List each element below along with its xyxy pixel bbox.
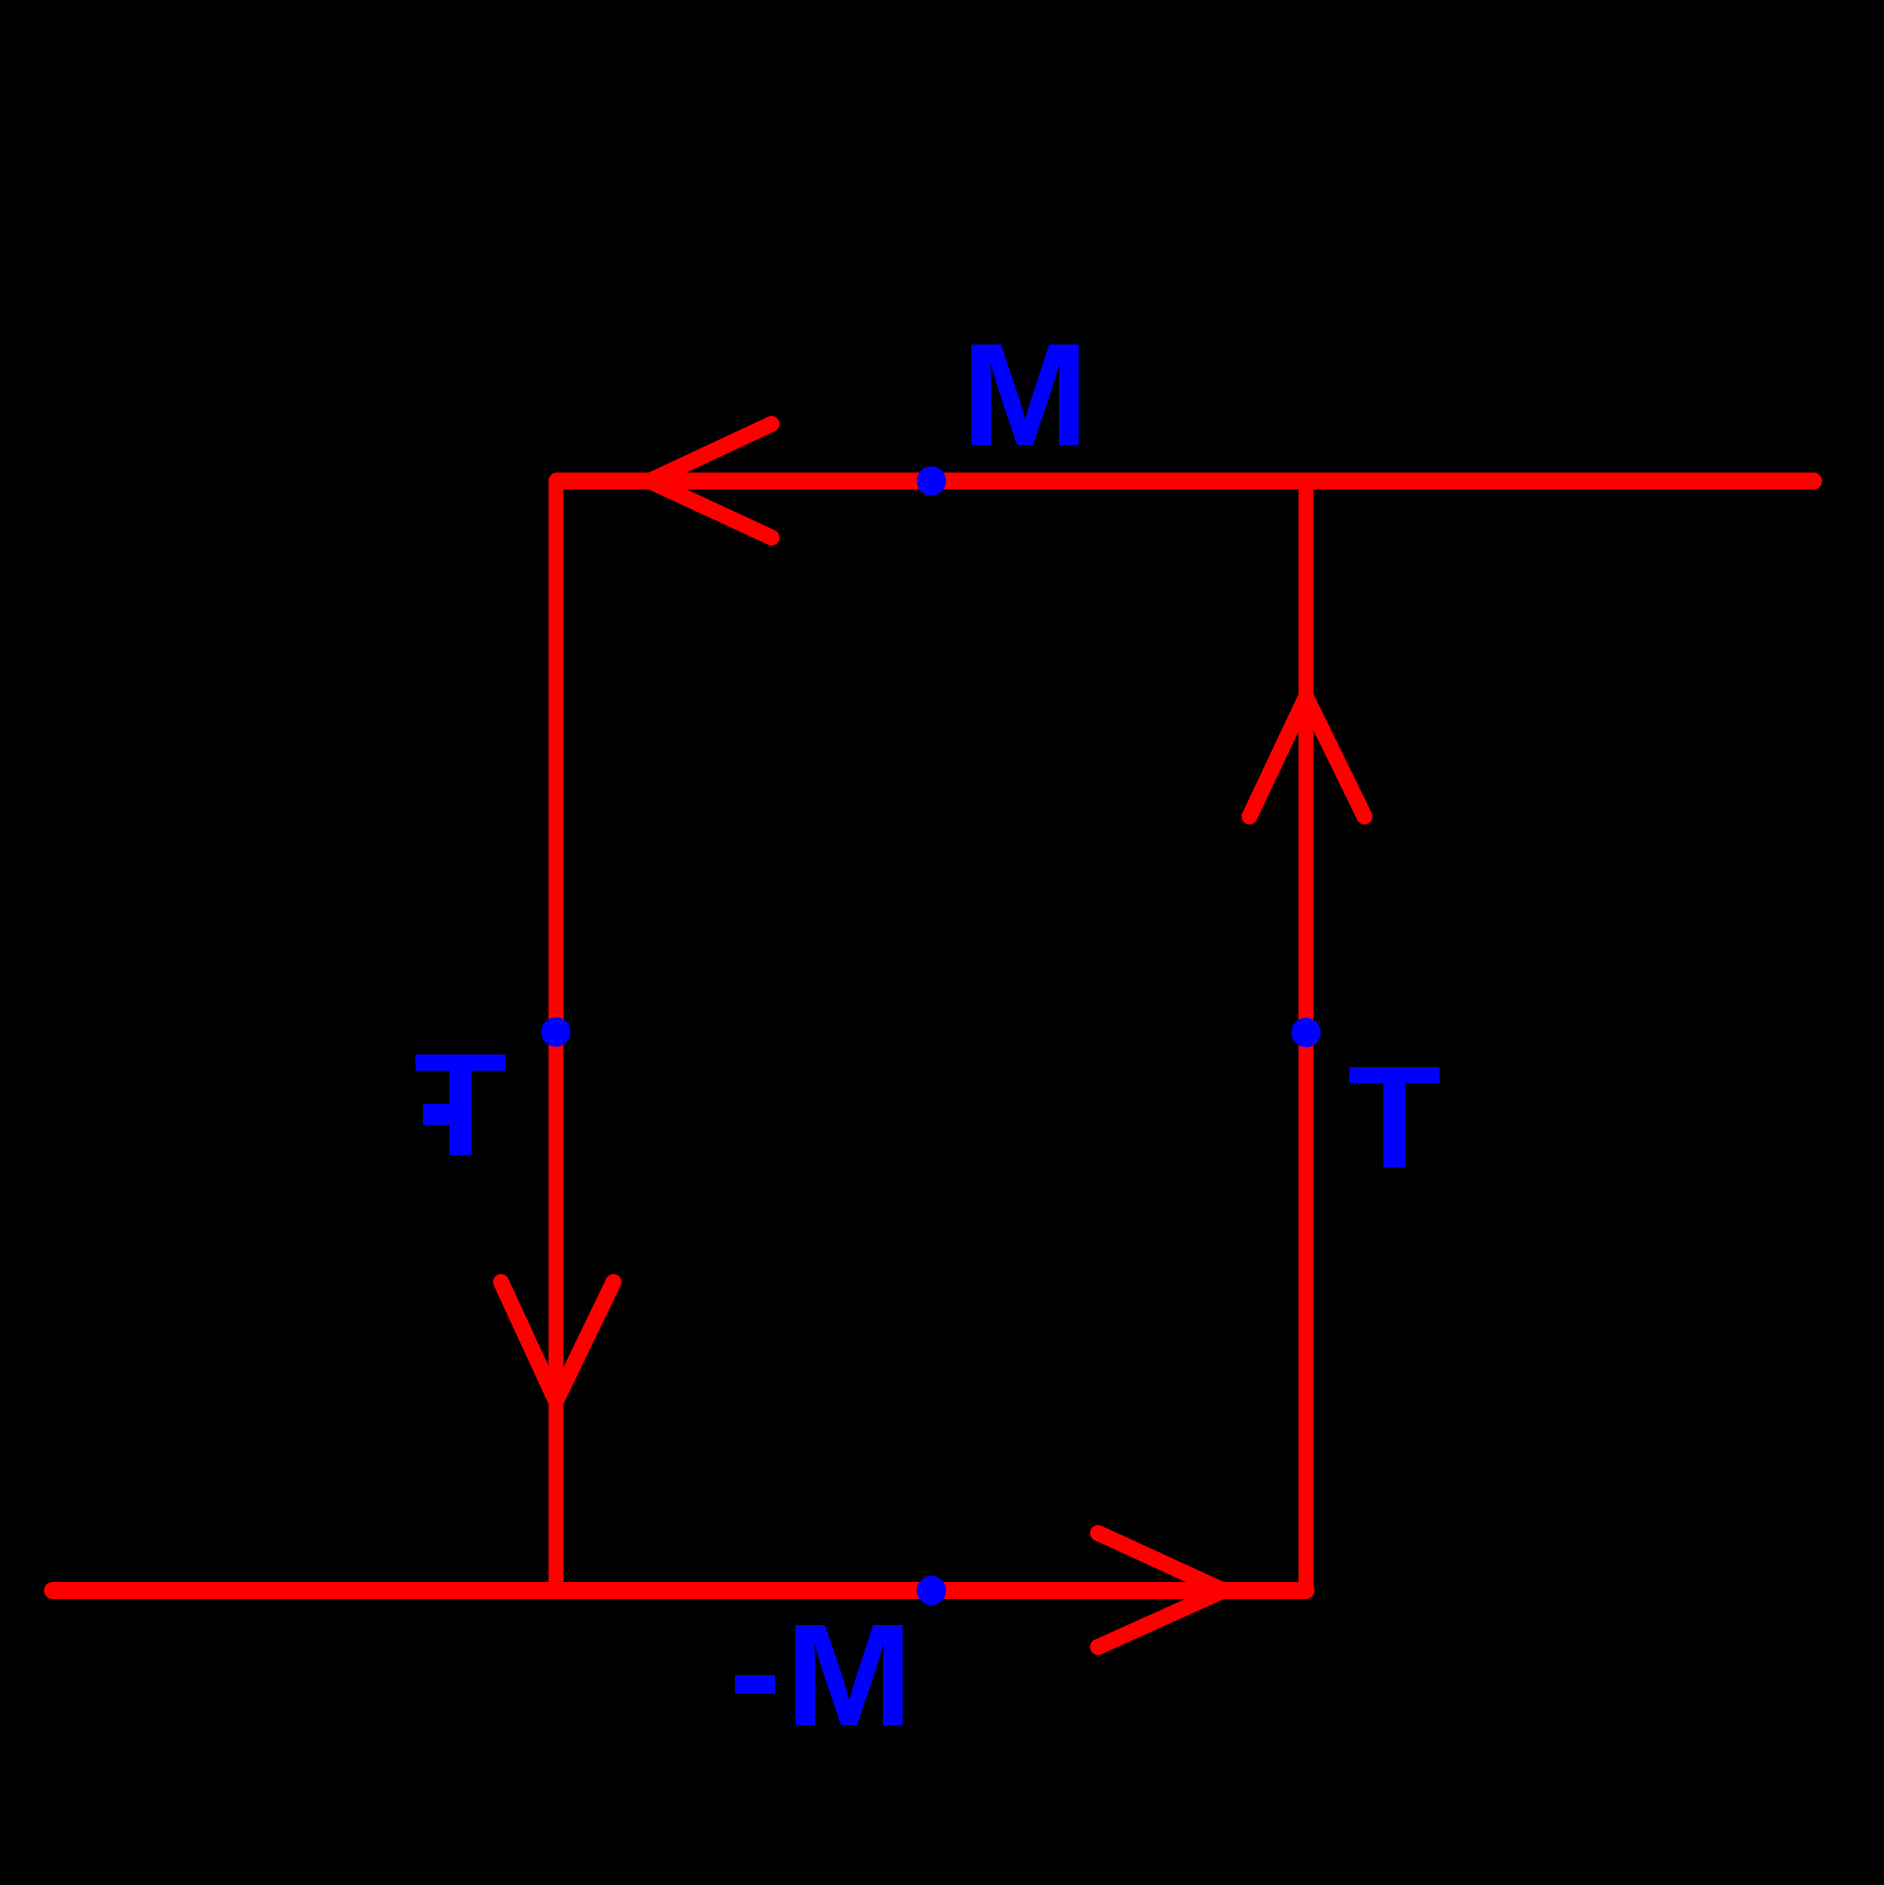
wire: right vertical segment (heating branch) (1299, 481, 1314, 1591)
wire: left vertical segment (cooling branch) (549, 481, 564, 1591)
arrowhead: upward on right segment (1250, 697, 1365, 817)
wire: top horizontal segment (M = +M branch) (557, 473, 1814, 490)
wire: bottom horizontal segment (M = -M branch) (53, 1582, 1307, 1599)
arrowhead: downward on left segment (501, 1282, 614, 1401)
label -T minus bar (left) (423, 1104, 463, 1125)
svg-text:T: T (1348, 1035, 1442, 1199)
node: blue point on bottom segment (917, 1576, 946, 1605)
svg-text:M: M (961, 312, 1089, 476)
node: blue point on top segment (917, 466, 946, 495)
arrowhead: rightward on bottom segment (1098, 1533, 1224, 1647)
svg-text:M: M (785, 1593, 913, 1757)
node: blue point on left segment (541, 1017, 570, 1046)
node: blue point on right segment (1291, 1018, 1320, 1047)
label -M minus bar (bottom) (735, 1675, 775, 1694)
arrowhead: leftward on top segment (650, 424, 772, 538)
